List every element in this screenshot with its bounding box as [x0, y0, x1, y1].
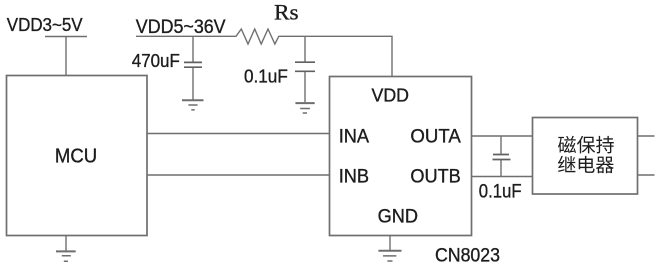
svg-text:OUTA: OUTA	[410, 127, 461, 148]
svg-text:0.1uF: 0.1uF	[479, 181, 522, 202]
svg-text:470uF: 470uF	[132, 50, 180, 71]
svg-text:INB: INB	[339, 167, 369, 188]
svg-text:OUTB: OUTB	[410, 167, 460, 188]
svg-text:0.1uF: 0.1uF	[244, 66, 288, 87]
svg-text:VDD: VDD	[372, 84, 410, 105]
svg-text:MCU: MCU	[55, 146, 97, 168]
svg-text:CN8023: CN8023	[435, 245, 500, 266]
svg-text:GND: GND	[378, 207, 418, 228]
svg-text:VDD3~5V: VDD3~5V	[7, 15, 84, 35]
svg-text:Rs: Rs	[274, 0, 299, 24]
svg-text:VDD5~36V: VDD5~36V	[136, 16, 226, 38]
svg-text:INA: INA	[339, 127, 370, 148]
